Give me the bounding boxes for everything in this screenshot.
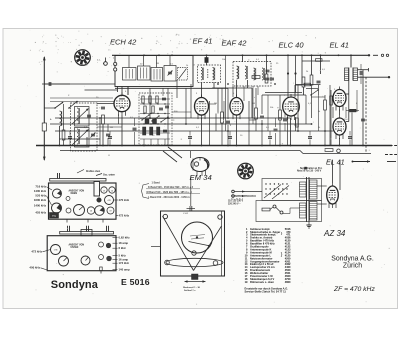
svg-text:172 kHz: 172 kHz: [119, 261, 130, 265]
wire bus y84: [42, 83, 115, 85]
osc sub coil 3: [151, 68, 163, 82]
wire c19: [284, 112, 286, 117]
switch bus h1: [140, 103, 170, 105]
dial drum pulley: [75, 50, 91, 66]
svg-text:470 kHz: 470 kHz: [119, 198, 130, 202]
svg-text:Seillauf 2 x: Seillauf 2 x: [184, 290, 196, 292]
antenna coupling cap C1: [48, 82, 50, 86]
svg-text:Netz 50 Hz 110 - 245 V: Netz 50 Hz 110 - 245 V: [297, 170, 322, 173]
wire r12 drop: [303, 87, 305, 95]
antenna terminal: [104, 62, 108, 66]
pointer arrowhead up: [43, 56, 46, 60]
switch resistor Rb: [149, 96, 151, 103]
wire R1 drop: [102, 124, 104, 146]
capacitor C17: [260, 115, 264, 117]
wire avc drop 150: [149, 88, 151, 118]
bandfilter sub box B: [75, 128, 90, 148]
trimmer pot row c: [95, 206, 105, 216]
bandfilter arrow A: [72, 109, 89, 125]
wire x163: [162, 88, 164, 96]
grid capacitor C6: [133, 127, 137, 129]
svg-text:M Band 510 - 1620 kHz 580: M Band 510 - 1620 kHz 580 - 185 m + 4: [147, 191, 193, 194]
wire c18 drop: [318, 85, 320, 95]
capacitor C18: [317, 80, 321, 82]
wire az34 a: [317, 185, 327, 187]
capacitor C19: [283, 118, 287, 120]
dial shaft top: [189, 206, 191, 211]
trimmer small U5: [106, 243, 111, 248]
wire x177: [176, 80, 178, 98]
wire ELC40 plate up: [294, 85, 296, 97]
IF coil T5a: [237, 66, 239, 79]
alignment box2 stub c: [106, 226, 108, 232]
resistor R12: [302, 77, 305, 87]
switch bus h4: [140, 138, 170, 140]
switch lever a: [142, 115, 149, 120]
svg-text:L Band 150 - 260 kHz 2000: L Band 150 - 260 kHz 2000 - 1150 m: [148, 196, 190, 199]
rail caps: [68, 136, 72, 138]
wire AVC bus 3: [55, 130, 333, 132]
trimmer pot row b: [87, 207, 94, 214]
wire antenna coil to rail: [59, 126, 61, 146]
switch contact blob b: [153, 119, 157, 124]
trimmer pot U1: [51, 245, 61, 255]
mains plug pin b: [232, 195, 235, 198]
svg-text:140 amp: 140 amp: [119, 268, 130, 272]
wire x352 low: [351, 113, 353, 146]
dial knob arrow: [185, 281, 206, 283]
wire T5 to EAF42: [236, 80, 238, 97]
wire B+ rail: [112, 54, 369, 56]
svg-text:716 kHz: 716 kHz: [35, 185, 46, 189]
switch cap Cc: [165, 105, 169, 107]
capacitor C23: [361, 118, 365, 120]
wire x275 short: [275, 118, 277, 127]
tone cap C20: [359, 71, 361, 75]
wire x312 mid: [311, 85, 313, 118]
dial pointer needle: [189, 242, 211, 247]
resistor R8: [252, 76, 260, 79]
bandfilter sub box A: [75, 107, 90, 127]
dial drum note b: [191, 238, 204, 239]
dial drum note a: [190, 235, 205, 237]
dial left pointer: [151, 246, 161, 248]
wire EL41b drop: [339, 138, 341, 146]
wire grid bus a: [50, 97, 113, 99]
svg-text:1 Band: 1 Band: [152, 182, 161, 185]
svg-text:E 5016: E 5016: [121, 277, 150, 287]
svg-text:K Band 520 - 1510 kHz 590: K Band 520 - 1510 kHz 590 - 197 m + 4: [148, 186, 194, 189]
alignment box bottom view: [47, 236, 116, 271]
wire x295: [295, 117, 297, 131]
switch bus h3: [140, 123, 170, 125]
wire x268: [267, 95, 269, 131]
wire h61 right: [302, 60, 330, 62]
svg-text:Sondyna A.G.: Sondyna A.G.: [331, 256, 374, 263]
IF coil T5d: [262, 68, 264, 80]
svg-text:1600 kHz: 1600 kHz: [34, 198, 47, 202]
output transformer T6 core: [348, 68, 350, 81]
svg-text:EF 41: EF 41: [193, 37, 213, 46]
wire c17: [261, 95, 263, 114]
dial pulley BR: [213, 261, 218, 266]
wire az34 b: [317, 203, 327, 205]
wire r13 up: [311, 55, 313, 75]
svg-text:EL 41: EL 41: [326, 157, 345, 166]
alignment stub a: [57, 173, 59, 179]
osc sub coil 2: [138, 66, 151, 80]
mains transformer core: [306, 177, 308, 222]
wire T4 sec: [213, 83, 215, 89]
mains transformer winding 3: [300, 182, 307, 197]
wire r16: [346, 110, 350, 112]
coil can pin 2: [114, 68, 117, 71]
align2 bottom stub: [100, 267, 103, 271]
power box lower: [256, 201, 322, 222]
wire EM34 to dial: [190, 176, 192, 206]
wire ELC40 drop: [290, 118, 292, 146]
wire T5 feed: [242, 55, 244, 62]
trimmer pot T1: [53, 189, 62, 198]
IF coil T5b: [245, 66, 247, 79]
wire x331: [330, 90, 332, 146]
bandfilter coil L2: [77, 108, 79, 124]
wire az34 up: [332, 160, 334, 183]
fuse resistor R20: [262, 208, 270, 211]
trimmer small f: [66, 197, 70, 201]
wire ECH42 plate up: [127, 87, 129, 96]
wire EM34 drop: [190, 151, 192, 158]
trimmer small dark: [97, 198, 101, 202]
speaker feed resistor R17: [325, 149, 333, 152]
svg-text:UNTEN: UNTEN: [71, 247, 79, 249]
switch resistor Rc: [156, 96, 158, 103]
IF coil T4b: [213, 68, 215, 81]
wire mid h95: [262, 94, 306, 96]
dial cord b: [194, 226, 222, 271]
svg-text:EAF 42: EAF 42: [222, 39, 248, 48]
osc resistor R1: [102, 115, 105, 124]
wire el41 left: [332, 107, 334, 118]
wire can drop 2: [121, 87, 123, 96]
switch lever c: [161, 117, 168, 122]
IF coil T4a: [201, 68, 203, 81]
mains lead b: [235, 195, 257, 197]
IF coil T5c: [254, 68, 256, 80]
wire T6 out a: [358, 69, 369, 71]
svg-text:Drehko oben: Drehko oben: [86, 171, 101, 173]
wire C5 drop: [107, 124, 109, 132]
trimmer small U4: [99, 242, 104, 247]
svg-text:1M: 1M: [110, 127, 113, 129]
tube EL41 b: [333, 115, 346, 139]
wire x224: [223, 101, 225, 118]
wire EM34 feed b: [163, 151, 177, 162]
trimmer small e: [66, 208, 71, 213]
wire x218: [217, 88, 219, 113]
svg-text:520 kHz: 520 kHz: [35, 194, 46, 198]
switch resistor Rg: [150, 127, 153, 135]
wire EAF42 drop: [236, 119, 238, 146]
mains arrow b: [242, 195, 245, 197]
band table row line b: [146, 193, 200, 195]
wire c16: [227, 88, 229, 119]
alignment pointer b: [96, 174, 102, 176]
switch contact blob a: [145, 119, 149, 124]
dial pulley BC: [192, 251, 196, 255]
svg-text:ZF = 470 kHz: ZF = 470 kHz: [333, 286, 375, 293]
wire x363: [362, 70, 364, 146]
dial pulley TL: [163, 214, 167, 218]
tube ELC40: [283, 94, 300, 120]
wire x253: [252, 86, 254, 124]
IF can T4: [198, 65, 221, 83]
mains switch S2: [273, 205, 276, 208]
mains transformer winding 4: [300, 203, 307, 218]
wire h112 mid: [172, 111, 191, 113]
dial pulley BL: [165, 260, 170, 265]
resistor R11: [255, 108, 258, 119]
wire h97: [311, 96, 325, 98]
wire can drop 3: [127, 87, 129, 96]
tube EF41: [195, 95, 209, 120]
wire antenna feed: [44, 83, 70, 85]
switch resistor Rd: [144, 106, 146, 113]
tube AZ34: [327, 183, 339, 208]
wire EM34 feed a: [168, 147, 182, 158]
trimmer small U7: [107, 256, 112, 261]
wire x302 up: [301, 55, 303, 85]
wire EL41a plate: [346, 93, 349, 95]
wire x298: [297, 85, 299, 131]
svg-text:2M: 2M: [156, 63, 159, 65]
speaker link line: [352, 161, 370, 163]
wire R2: [63, 104, 65, 130]
switch block extra bus: [140, 98, 170, 100]
wire h84 right: [296, 84, 321, 86]
align box ticks: [66, 219, 68, 222]
chassis rail 2: [60, 150, 300, 152]
svg-text:18 amp: 18 amp: [119, 241, 129, 245]
trimmer small 14: [109, 187, 115, 193]
bandfilter cap C2: [87, 114, 91, 116]
trimmer pot T2: [52, 203, 62, 213]
wire B+ rail end dash: [373, 54, 378, 56]
band table row line a: [146, 188, 200, 190]
cathode resistor R16: [350, 109, 357, 112]
osc trimmer box: [178, 68, 188, 81]
tube EL41 a: [333, 87, 346, 111]
IF can T5: [233, 62, 271, 87]
svg-text:Service-Stelle Zürich Tel.: Service-Stelle Zürich Tel. 24 77 11: [245, 290, 287, 294]
svg-text:1400 kHz: 1400 kHz: [34, 189, 47, 193]
dial drive frame: [161, 211, 225, 276]
switch resistor Re: [152, 106, 154, 113]
wire avc drop 186: [185, 88, 187, 124]
switch drops: [143, 139, 145, 146]
resistor R9: [265, 74, 268, 83]
alignment box2 block: [81, 230, 92, 236]
output transformer primary: [353, 68, 357, 81]
svg-text:400 kHz: 400 kHz: [29, 266, 40, 270]
wire h104 mid2: [210, 103, 217, 105]
resistor R24: [316, 59, 323, 62]
wire can drop 1: [117, 87, 119, 93]
power note mark: [305, 167, 307, 169]
wire h108 left: [44, 107, 55, 109]
tube EM34: [191, 158, 209, 172]
ground mains: [308, 222, 310, 225]
svg-text:17B: 17B: [54, 250, 58, 252]
mains plug pin a: [232, 190, 235, 193]
wire EF41 drop: [201, 118, 203, 146]
wire c20: [360, 64, 362, 71]
terminal post A: [381, 54, 383, 56]
capacitor C15: [270, 77, 274, 79]
wire bandfilter drop: [86, 137, 88, 146]
svg-text:Zürich: Zürich: [343, 263, 362, 270]
wire ps links: [270, 207, 273, 210]
resistor R13: [310, 75, 313, 85]
wire x346: [345, 107, 347, 118]
wire mid h88: [212, 87, 252, 89]
svg-text:OBEN: OBEN: [71, 193, 78, 195]
wire x318b: [318, 95, 320, 131]
switch cap Ca: [162, 97, 166, 99]
wire AVC bus 2: [50, 123, 312, 125]
dial drum pulley 2: [238, 163, 254, 179]
IF can on chassis: [94, 182, 100, 197]
wire grid bus b: [50, 101, 114, 103]
bus dots: [99, 117, 101, 119]
trimmer small 13: [101, 187, 107, 193]
bandfilter trimmer C3: [91, 133, 95, 135]
wire r10: [221, 88, 223, 112]
wire x320 up: [320, 55, 322, 74]
wire avc drop 168: [167, 88, 169, 145]
mains transformer winding 1: [310, 180, 318, 199]
coil can bottom bus: [115, 87, 228, 89]
switch bus h2: [140, 113, 170, 115]
wire h139: [60, 138, 101, 140]
coil can feeds: [128, 56, 130, 68]
trimmer pot row d: [107, 207, 114, 214]
svg-text:472 kHz: 472 kHz: [31, 250, 42, 254]
marker 57kp: [50, 213, 59, 219]
wire x210: [209, 101, 211, 146]
switch lever d: [311, 90, 318, 95]
trimmer pot U2: [59, 256, 69, 266]
wire r11: [255, 88, 257, 108]
cathode cap C5: [106, 133, 110, 135]
switch resistor Rf: [143, 127, 146, 135]
resistor R22: [330, 96, 333, 105]
wire T6 out b: [358, 76, 390, 78]
mains lead a: [235, 191, 263, 193]
alignment box top view: [49, 183, 117, 219]
wire AVC bus 1: [55, 117, 290, 119]
alignment box top bar: [50, 179, 106, 182]
svg-text:0,62 kHz: 0,62 kHz: [119, 236, 131, 240]
wire x366 dashed: [365, 77, 367, 153]
IF can T4 core: [207, 69, 209, 79]
band table brace: [142, 184, 150, 199]
output transformer secondary: [345, 68, 349, 81]
coil can pin 1: [114, 62, 117, 65]
svg-text:ELC 40: ELC 40: [279, 41, 305, 50]
wire x258: [257, 86, 259, 95]
dial drum hub: [196, 236, 198, 238]
voltage selector contacts: [265, 183, 266, 184]
svg-text:AZ 34: AZ 34: [323, 229, 346, 238]
wire x191: [190, 84, 192, 118]
wire h120 mid3: [249, 119, 256, 121]
wire T4 to EF41: [201, 83, 203, 98]
dial drum: [182, 222, 213, 253]
svg-text:110 125 150 V: 110 125 150 V: [228, 201, 243, 203]
switch block dots: [143, 103, 144, 104]
wire T4 feed: [206, 55, 208, 65]
speaker feed pin: [337, 149, 341, 153]
IF can T5 caps: [266, 69, 270, 71]
dial frame inner line: [221, 211, 223, 276]
osc sub coil 1: [123, 68, 137, 81]
resistor R14: [279, 110, 282, 120]
speaker link dash: [387, 161, 396, 163]
dial pointer line: [43, 57, 45, 160]
wire T6 feed: [350, 55, 352, 67]
antenna series resistor: [42, 123, 46, 131]
svg-text:Sondyna: Sondyna: [51, 279, 99, 291]
svg-text:4800: 4800: [285, 280, 291, 284]
wire r9 up: [266, 55, 268, 74]
trimmer pot row a: [74, 205, 85, 216]
svg-text:L 502: L 502: [183, 213, 189, 215]
pointer arrowhead down: [43, 157, 46, 161]
wire mixer grid: [97, 103, 114, 105]
tube ECH42: [114, 92, 130, 115]
band switch S1a: [55, 103, 63, 109]
trimmer pot T3: [105, 196, 114, 205]
dial scale ellipse: [166, 258, 223, 266]
svg-text:Skalenseil 1 : 36: Skalenseil 1 : 36: [183, 287, 201, 289]
wire r14: [279, 95, 281, 110]
resistor R10: [221, 112, 224, 123]
alignment box2 stub b: [86, 226, 88, 232]
B+ rail dots: [143, 54, 145, 56]
voltage selector wiper b: [272, 186, 289, 200]
svg-text:Osz. unten: Osz. unten: [103, 174, 115, 177]
rail junction dots: [43, 145, 45, 147]
power box upper: [262, 179, 322, 201]
wire c6: [134, 118, 136, 126]
mains arrow a: [242, 190, 245, 192]
resistor R15: [324, 100, 327, 110]
wire EL41 link: [339, 110, 341, 116]
resistor R21: [296, 118, 299, 127]
switch resistor Ra: [142, 96, 144, 103]
svg-text:1400 kHz: 1400 kHz: [34, 204, 47, 208]
trimmer small U6: [99, 255, 104, 260]
svg-text:1M: 1M: [252, 103, 255, 105]
osc padder cap C4: [101, 106, 105, 108]
svg-text:455 kHz: 455 kHz: [35, 211, 46, 215]
tube EAF42: [230, 95, 243, 120]
wire h127 mid: [97, 126, 122, 128]
speaker dash b: [385, 154, 397, 156]
wire ECH42 cathode drop: [121, 116, 123, 146]
dial drive knob: [192, 274, 199, 280]
